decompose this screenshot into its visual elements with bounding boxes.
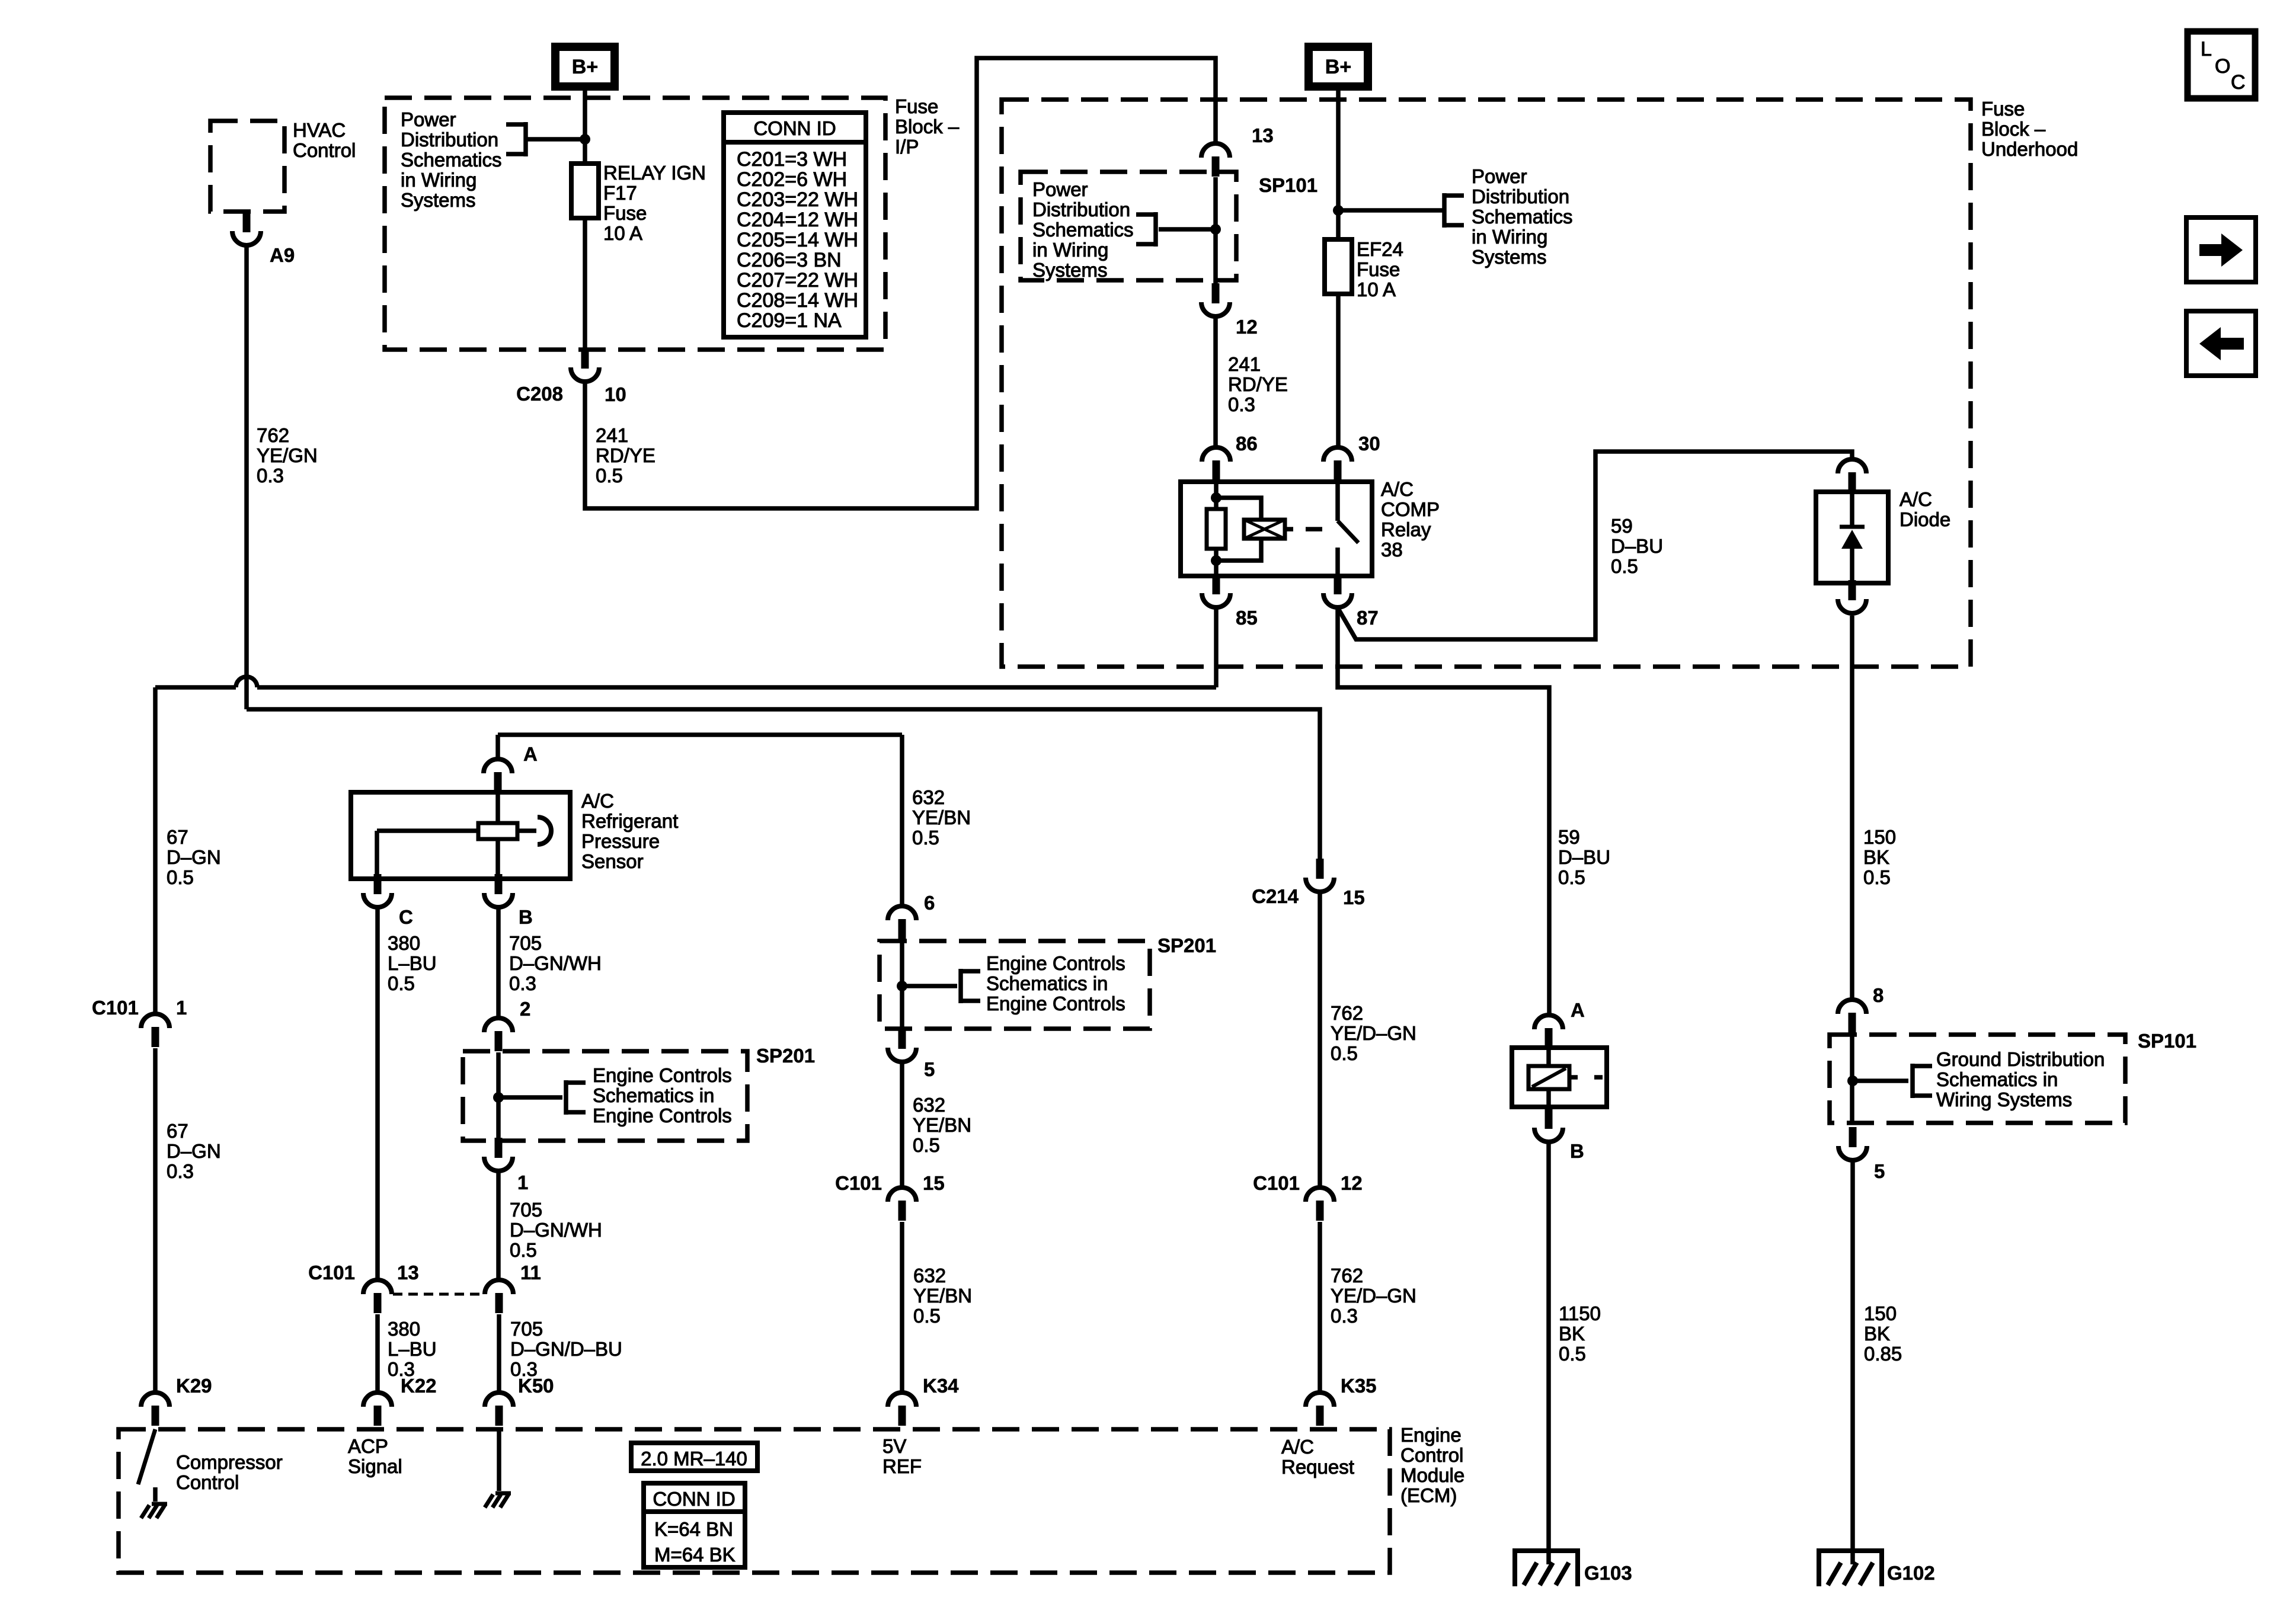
connector clutch pin B	[1534, 1109, 1563, 1142]
connector pin 2 (SP201)	[484, 1018, 513, 1051]
Fuse Block I/P dashed box	[385, 98, 885, 350]
svg-text:Refrigerant: Refrigerant	[581, 810, 678, 832]
svg-text:0.3: 0.3	[1228, 393, 1255, 415]
wire label 705 D-GN/D-BU 0.3	[510, 1318, 622, 1380]
svg-text:762: 762	[1331, 1265, 1363, 1286]
svg-text:0.5: 0.5	[596, 465, 623, 486]
svg-text:YE/BN: YE/BN	[912, 806, 971, 828]
svg-text:Control: Control	[176, 1471, 239, 1493]
svg-text:B+: B+	[572, 56, 598, 78]
svg-text:SP201: SP201	[756, 1045, 815, 1067]
svg-text:Schematics: Schematics	[401, 149, 502, 171]
wire 1150 BK 0.5 clutch to G103	[1546, 1142, 1551, 1564]
label A/C COMP Relay 38	[1381, 478, 1440, 561]
svg-text:C204=12 WH: C204=12 WH	[737, 209, 858, 231]
label Compressor Control	[176, 1451, 283, 1493]
svg-text:1: 1	[517, 1172, 528, 1193]
connector relay pin 30	[1323, 447, 1352, 481]
svg-text:2.0 MR–140: 2.0 MR–140	[641, 1448, 747, 1470]
svg-text:YE/BN: YE/BN	[913, 1114, 971, 1136]
diode A/C Diode outline	[1816, 492, 1888, 583]
svg-text:Schematics in: Schematics in	[1936, 1068, 2058, 1090]
svg-text:Block –: Block –	[1981, 118, 2046, 140]
connector C101 pin 15	[888, 1188, 916, 1221]
svg-text:YE/D–GN: YE/D–GN	[1331, 1285, 1416, 1307]
svg-text:Relay: Relay	[1381, 518, 1431, 540]
wire label 1150 BK 0.5	[1559, 1302, 1601, 1365]
connector C214 pin 15	[1306, 859, 1334, 892]
svg-text:632: 632	[913, 1094, 945, 1116]
svg-text:C: C	[399, 906, 413, 928]
LOC legend box	[2188, 31, 2255, 98]
svg-text:G103: G103	[1584, 1562, 1632, 1584]
reference bracket SP201 (632)	[961, 969, 980, 1003]
wire B+1 to fuse F17	[583, 91, 587, 164]
wire label 705 D-GN/WH 0.5	[510, 1199, 602, 1261]
connector pin 13 (underhood fuse block)	[1201, 143, 1230, 177]
reference text engine controls (632)	[986, 952, 1125, 1014]
relay coil box with X	[1244, 520, 1285, 539]
wire 705 D-GN/WH sensor B to conn2	[496, 907, 501, 1016]
svg-text:BK: BK	[1559, 1323, 1585, 1345]
connector ECM K22	[363, 1393, 392, 1426]
svg-text:Compressor: Compressor	[176, 1451, 283, 1473]
svg-text:Request: Request	[1281, 1456, 1354, 1478]
sensor crescent probe	[538, 817, 551, 844]
svg-text:8: 8	[1873, 984, 1884, 1006]
HVAC Control module dashed box	[210, 121, 284, 212]
sensor A/C Refrigerant Pressure Sensor outline	[351, 792, 570, 879]
svg-text:K35: K35	[1341, 1375, 1377, 1397]
connector relay pin 87	[1323, 574, 1352, 607]
wire F17 to C208	[583, 218, 587, 353]
svg-text:0.5: 0.5	[388, 972, 415, 994]
connector relay pin 86	[1202, 447, 1230, 481]
svg-text:Engine Controls: Engine Controls	[986, 952, 1125, 974]
svg-text:B: B	[1570, 1140, 1584, 1162]
junction node B+1/F17	[580, 134, 590, 145]
connector pin 12 (underhood fuse block)	[1201, 283, 1230, 316]
svg-text:HVAC: HVAC	[293, 119, 346, 141]
nav arrow right box	[2186, 217, 2256, 282]
wire 380 L-BU sensor C to C101-13	[375, 907, 380, 1278]
svg-text:C101: C101	[1253, 1172, 1300, 1194]
svg-text:Power: Power	[1032, 178, 1088, 200]
wire K50 to ECM internal ground	[497, 1429, 501, 1491]
wire conn6 to conn5 inside SP201	[900, 940, 904, 1028]
wire hop over A9 wire	[236, 677, 257, 687]
wire relay pin85 down	[1214, 609, 1219, 687]
svg-text:59: 59	[1611, 515, 1633, 537]
svg-text:(ECM): (ECM)	[1400, 1484, 1457, 1506]
reference bracket ground distribution	[1913, 1064, 1932, 1098]
wire label 59 D-BU 0.5 (clutch)	[1558, 826, 1610, 888]
svg-text:I/P: I/P	[895, 136, 919, 158]
SP201 splice dashed box (705 wire)	[463, 1051, 747, 1141]
wire 762 YE/GN from HVAC A9	[244, 245, 249, 709]
wire label 59 D-BU 0.5 (diode)	[1611, 515, 1663, 577]
svg-text:0.5: 0.5	[1558, 866, 1585, 888]
Engine Control Module ECM dashed box	[119, 1429, 1390, 1573]
svg-text:B+: B+	[1325, 56, 1351, 78]
svg-text:D–GN: D–GN	[167, 1140, 221, 1162]
svg-text:D–GN/WH: D–GN/WH	[510, 1219, 602, 1241]
wire sensor A to 632 riser	[498, 732, 902, 737]
svg-text:D–BU: D–BU	[1611, 535, 1663, 557]
svg-text:Schematics in: Schematics in	[593, 1084, 714, 1106]
svg-text:C206=3 BN: C206=3 BN	[737, 249, 842, 271]
connector C101 pin 11	[485, 1280, 513, 1313]
svg-text:A/C: A/C	[1900, 488, 1932, 510]
svg-text:K29: K29	[176, 1375, 212, 1397]
wire 705 D-GN/D-BU C101-11 to K50	[497, 1314, 501, 1391]
wire 762 YE/D-GN C214 to C101-12	[1318, 892, 1322, 1186]
svg-text:0.5: 0.5	[1863, 866, 1891, 888]
connector diode top	[1838, 459, 1866, 492]
wire 632 YE/BN conn5 to C101-15	[900, 1062, 904, 1186]
svg-text:Pressure: Pressure	[581, 830, 660, 852]
connector ECM K29	[141, 1393, 170, 1426]
power feed B+ symbol 1	[551, 43, 619, 91]
svg-text:K22: K22	[401, 1375, 437, 1397]
wire label 632 YE/BN 0.5 (mid)	[913, 1094, 971, 1156]
wire 762 YE/GN to C214	[247, 709, 1320, 862]
connector pin 5 (ground splice)	[1838, 1127, 1867, 1160]
ground symbol ECM K50	[485, 1493, 511, 1507]
svg-text:1150: 1150	[1559, 1302, 1601, 1324]
sensor internal wire left	[377, 828, 478, 833]
connector pin 1 (SP201)	[484, 1138, 513, 1171]
splice SP201 junction (705)	[493, 1092, 504, 1103]
svg-text:in Wiring: in Wiring	[1032, 239, 1108, 261]
relay coil wire bottom	[1214, 549, 1219, 576]
svg-text:13: 13	[397, 1262, 419, 1283]
wire bracket2 to B+2 node	[1338, 208, 1443, 213]
svg-text:Wiring Systems: Wiring Systems	[1936, 1089, 2072, 1110]
svg-text:L: L	[2201, 38, 2212, 60]
svg-text:0.3: 0.3	[509, 972, 536, 994]
svg-text:REF: REF	[882, 1455, 922, 1477]
wire label 632 YE/BN 0.5 (lower)	[913, 1265, 972, 1327]
splice SP101 junction	[1210, 224, 1221, 235]
svg-text:Diode: Diode	[1900, 508, 1950, 530]
wire EF24 to relay pin30	[1336, 294, 1341, 446]
svg-text:RD/YE: RD/YE	[596, 444, 655, 466]
svg-text:0.5: 0.5	[1331, 1042, 1358, 1064]
svg-text:12: 12	[1236, 316, 1258, 338]
svg-text:0.5: 0.5	[1559, 1343, 1586, 1365]
svg-text:0.5: 0.5	[913, 1305, 941, 1327]
relay coil branch bottom	[1216, 539, 1261, 561]
svg-text:1: 1	[176, 997, 187, 1019]
svg-text:L–BU: L–BU	[388, 1338, 437, 1360]
wire down to sensor conn A	[495, 735, 500, 757]
label Fuse Block I/P	[895, 95, 960, 158]
wire 241 RD/YE 0.5 C208 to pin13	[585, 58, 1216, 508]
wire 67 D-GN left segment	[155, 685, 236, 690]
svg-text:380: 380	[388, 932, 420, 954]
wire SP201-2 bracket	[902, 984, 957, 988]
svg-text:SP101: SP101	[1259, 174, 1318, 196]
svg-text:C202=6 WH: C202=6 WH	[737, 168, 847, 191]
wire B+2 to fuse EF24	[1336, 91, 1341, 239]
svg-text:10: 10	[605, 383, 626, 405]
label fuse EF24	[1357, 238, 1403, 300]
wire 150 BK 0.85 to G102	[1850, 1160, 1855, 1564]
connector diode bottom	[1838, 580, 1866, 613]
svg-text:15: 15	[923, 1172, 945, 1194]
svg-text:YE/D–GN: YE/D–GN	[1331, 1022, 1416, 1044]
svg-text:10 A: 10 A	[1357, 279, 1396, 300]
svg-text:O: O	[2215, 55, 2230, 78]
label 5V REF	[882, 1435, 922, 1477]
svg-text:0.3: 0.3	[167, 1160, 194, 1182]
label HVAC Control	[293, 119, 356, 161]
junction node B+2/EF24	[1333, 205, 1344, 216]
svg-text:11: 11	[520, 1262, 541, 1283]
svg-text:Fuse: Fuse	[895, 95, 938, 117]
reference text power distribution I/P	[401, 108, 502, 211]
svg-text:Engine Controls: Engine Controls	[986, 993, 1125, 1014]
wire label 380 L-BU 0.5	[388, 932, 437, 994]
wire 762 YE/D-GN C101-12 to K35	[1318, 1222, 1322, 1391]
connector C101 pin 1	[141, 1014, 170, 1047]
connector pin 6 (SP201)	[888, 906, 916, 939]
fuse EF24 10A	[1325, 239, 1352, 294]
svg-text:BK: BK	[1863, 846, 1889, 868]
svg-text:K=64 BN: K=64 BN	[654, 1518, 733, 1540]
reference bracket power distribution (I/P)	[506, 122, 526, 156]
svg-text:Signal: Signal	[348, 1455, 402, 1477]
svg-text:C101: C101	[835, 1172, 882, 1194]
splice SP101 ground junction	[1847, 1076, 1858, 1086]
svg-text:RD/YE: RD/YE	[1228, 373, 1288, 395]
svg-text:632: 632	[913, 1265, 946, 1286]
svg-text:87: 87	[1357, 607, 1379, 629]
nav arrow left box	[2186, 311, 2256, 376]
wire label 380 L-BU 0.3	[388, 1318, 437, 1380]
svg-text:M=64 BK: M=64 BK	[654, 1544, 736, 1566]
SP201 splice dashed box (632 wire)	[880, 941, 1150, 1029]
svg-text:5: 5	[1874, 1160, 1885, 1182]
label Fuse Block Underhood	[1981, 98, 2078, 160]
svg-text:YE/BN: YE/BN	[913, 1285, 972, 1307]
svg-text:Control: Control	[1400, 1444, 1463, 1466]
svg-text:Distribution: Distribution	[1032, 199, 1130, 220]
label box 2.0 MR-140	[631, 1443, 757, 1471]
svg-text:150: 150	[1864, 1302, 1897, 1324]
svg-text:12: 12	[1341, 1172, 1363, 1194]
svg-text:Sensor: Sensor	[581, 850, 644, 872]
svg-text:0.3: 0.3	[257, 465, 284, 486]
wire 59 D-BU pin87 to clutch	[1338, 609, 1549, 1013]
svg-text:D–GN/D–BU: D–GN/D–BU	[510, 1338, 622, 1360]
wire label 150 BK 0.5	[1863, 826, 1896, 888]
connector ECM K34	[888, 1393, 916, 1426]
ground G102	[1819, 1551, 1882, 1586]
reference bracket SP201 (705)	[566, 1080, 586, 1115]
SP101 ground splice dashed box	[1830, 1035, 2125, 1123]
sensor internal wire bottom	[495, 839, 500, 879]
wire label 705 D-GN/WH 0.3	[509, 932, 602, 994]
svg-text:705: 705	[509, 932, 542, 954]
label A/C Request	[1281, 1436, 1354, 1478]
reference text power distribution SP101	[1032, 178, 1134, 281]
svg-text:0.5: 0.5	[912, 827, 939, 849]
SP101 splice dashed box (power distribution ref)	[1021, 172, 1236, 280]
svg-text:Ground Distribution: Ground Distribution	[1936, 1048, 2105, 1070]
reference bracket power distribution (underhood)	[1444, 193, 1464, 228]
svg-text:A/C: A/C	[1281, 1436, 1314, 1458]
svg-text:A: A	[1571, 999, 1585, 1021]
svg-text:BK: BK	[1864, 1323, 1890, 1345]
svg-text:705: 705	[510, 1318, 543, 1340]
svg-text:EF24: EF24	[1357, 238, 1403, 260]
wire inside SP101 gnd box	[1850, 1034, 1854, 1124]
svg-text:Engine: Engine	[1400, 1424, 1462, 1446]
relay coil branch top	[1216, 498, 1261, 520]
wire label 67 D-GN 0.5	[167, 826, 221, 888]
svg-text:YE/GN: YE/GN	[257, 444, 318, 466]
wire 241 RD/YE 0.3 pin12 to relay pin86	[1213, 318, 1218, 446]
sensor internal wire left down	[375, 831, 379, 879]
fuse F17 RELAY IGN 10A	[571, 164, 599, 218]
svg-text:in Wiring: in Wiring	[401, 169, 477, 191]
svg-text:Block –: Block –	[895, 116, 960, 137]
svg-text:B: B	[519, 906, 533, 928]
wire label 762 YE/D-GN 0.3	[1331, 1265, 1416, 1327]
svg-text:0.3: 0.3	[1331, 1305, 1358, 1327]
svg-text:K50: K50	[518, 1375, 554, 1397]
switch blade compressor control	[138, 1429, 155, 1484]
wire label 67 D-GN 0.3	[167, 1120, 221, 1182]
wire 632 YE/BN down to conn6	[900, 735, 904, 904]
wire pin13 to pin12	[1213, 177, 1218, 286]
CONN ID ECM header line	[644, 1509, 745, 1514]
relay switch common	[1335, 482, 1340, 521]
diode internal wire top	[1850, 492, 1854, 526]
svg-text:C207=22 WH: C207=22 WH	[737, 269, 858, 292]
svg-text:10 A: 10 A	[603, 222, 642, 244]
wire 67 D-GN down to C101-1	[153, 687, 158, 1012]
connector clutch pin A	[1534, 1015, 1563, 1048]
svg-text:241: 241	[1228, 353, 1261, 375]
connector sensor pin A	[484, 759, 512, 792]
svg-text:A9: A9	[270, 244, 295, 266]
svg-text:K34: K34	[923, 1375, 959, 1397]
wire SP201-1 bracket	[498, 1095, 562, 1100]
connector ECM K35	[1306, 1393, 1334, 1426]
splice SP201 junction (632)	[897, 981, 907, 991]
connector C101 pin 13	[363, 1280, 392, 1313]
svg-text:Module: Module	[1400, 1464, 1464, 1486]
relay internal junction top	[1211, 492, 1221, 503]
svg-text:C208: C208	[516, 383, 563, 405]
svg-text:5: 5	[924, 1058, 935, 1080]
svg-text:RELAY IGN: RELAY IGN	[603, 162, 706, 184]
sensor gauge element	[478, 823, 517, 839]
svg-text:632: 632	[912, 786, 945, 808]
svg-text:Schematics in: Schematics in	[986, 972, 1108, 994]
wire conn2 to conn1 inside SP201	[496, 1052, 501, 1140]
svg-text:67: 67	[167, 826, 188, 848]
svg-text:D–GN: D–GN	[167, 846, 221, 868]
wire 705 D-GN/WH conn1 to C101-11	[496, 1171, 501, 1278]
svg-text:0.85: 0.85	[1864, 1343, 1902, 1365]
reference text power distribution underhood	[1472, 165, 1573, 268]
ground symbol ECM compressor control	[141, 1504, 167, 1518]
reference text engine controls (705)	[593, 1064, 732, 1126]
svg-text:Control: Control	[293, 139, 356, 161]
clutch internal wire top	[1546, 1048, 1551, 1066]
wire label 762 YE/GN 0.3	[257, 424, 318, 486]
svg-text:Schematics: Schematics	[1472, 206, 1573, 228]
svg-text:15: 15	[1343, 886, 1365, 908]
wire label 632 YE/BN 0.5 (upper)	[912, 786, 971, 849]
CONN ID table ECM	[644, 1483, 745, 1567]
svg-text:A/C: A/C	[1381, 478, 1414, 500]
svg-text:5V: 5V	[882, 1435, 906, 1457]
wire 150 BK diode to conn8	[1850, 616, 1854, 998]
svg-text:38: 38	[1381, 539, 1403, 561]
svg-text:241: 241	[596, 424, 628, 446]
connector C208 pin 10	[571, 348, 599, 382]
relay coil resistor	[1207, 509, 1226, 549]
connector A9 (HVAC control)	[232, 212, 261, 245]
svg-text:59: 59	[1558, 826, 1580, 848]
svg-text:Fuse: Fuse	[603, 202, 647, 224]
diode symbol	[1840, 527, 1865, 549]
label ACP Signal	[348, 1435, 402, 1477]
svg-text:C101: C101	[92, 997, 139, 1019]
svg-text:CONN ID: CONN ID	[653, 1488, 735, 1510]
svg-text:0.5: 0.5	[913, 1134, 940, 1156]
connector ECM K50	[485, 1393, 513, 1426]
wire 67 D-GN C101-1 to K29	[153, 1048, 158, 1391]
svg-text:C214: C214	[1252, 885, 1299, 907]
svg-text:Systems: Systems	[401, 189, 476, 211]
wire bracket1 to B+1 node	[527, 137, 585, 142]
svg-text:A: A	[523, 743, 538, 765]
svg-text:0.5: 0.5	[510, 1239, 537, 1261]
connector pin 5 (SP201)	[888, 1029, 916, 1062]
connector C101 pin 12	[1306, 1188, 1334, 1221]
label A/C Diode	[1900, 488, 1950, 530]
dashed link C101-13 to C101-11	[393, 1293, 485, 1296]
wire 632 YE/BN C101-15 to K34	[900, 1222, 904, 1391]
svg-text:Engine Controls: Engine Controls	[593, 1064, 732, 1086]
svg-text:C201=3 WH: C201=3 WH	[737, 148, 847, 171]
svg-text:13: 13	[1252, 124, 1274, 146]
svg-text:67: 67	[167, 1120, 188, 1142]
svg-text:SP101: SP101	[2138, 1030, 2196, 1052]
diode internal wire bottom	[1850, 546, 1854, 583]
wire 59 D-BU pin87 to diode	[1339, 452, 1852, 639]
svg-text:705: 705	[510, 1199, 542, 1221]
svg-text:A/C: A/C	[581, 790, 614, 812]
svg-text:Distribution: Distribution	[1472, 185, 1569, 207]
svg-text:Fuse: Fuse	[1981, 98, 2025, 120]
svg-text:Underhood: Underhood	[1981, 138, 2078, 160]
relay linkage stub	[1285, 527, 1293, 532]
CONN ID table header line	[724, 140, 866, 145]
svg-text:C101: C101	[308, 1262, 355, 1283]
svg-text:L–BU: L–BU	[388, 952, 437, 974]
wire label 762 YE/D-GN 0.5	[1331, 1002, 1416, 1064]
wire label 241 RD/YE 0.5	[596, 424, 655, 486]
sensor internal wire right	[517, 828, 536, 833]
svg-text:762: 762	[257, 424, 289, 446]
